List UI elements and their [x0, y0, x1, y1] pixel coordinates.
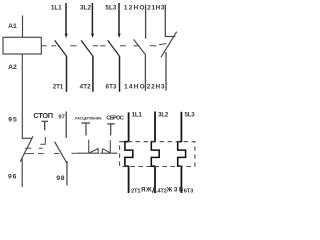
svg-text:A2: A2 [8, 64, 17, 71]
thermal pole 3 wire top [180, 112, 182, 142]
svg-text:1L1: 1L1 [51, 5, 62, 12]
svg-text:21Н3: 21Н3 [147, 4, 165, 11]
svg-text:6Т3: 6Т3 [106, 83, 118, 90]
coil KM1 [3, 37, 41, 54]
svg-text:4Т2: 4Т2 [157, 188, 167, 194]
wire 97 [65, 112, 67, 139]
svg-text:ЯЖД: ЯЖД [141, 186, 157, 193]
dashed link button to blade [25, 137, 45, 148]
trip actuator T1 [81, 123, 90, 136]
svg-text:1L1: 1L1 [132, 112, 143, 119]
svg-text:22Н3: 22Н3 [147, 83, 165, 90]
svg-text:2Т1: 2Т1 [53, 83, 64, 90]
svg-text:97: 97 [58, 115, 64, 121]
svg-text:98: 98 [56, 175, 64, 182]
blade pole 3 [108, 40, 120, 56]
blade aux NO [134, 39, 146, 55]
stop button actuator [42, 121, 49, 130]
svg-text:4Т2: 4Т2 [80, 83, 92, 90]
svg-text:96: 96 [8, 173, 17, 180]
svg-text:2Т1: 2Т1 [131, 188, 141, 194]
thermal pole 1 wire bottom [128, 166, 130, 193]
svg-text:3L2: 3L2 [80, 5, 91, 12]
arrow pole 1 [65, 34, 68, 38]
svg-text:95: 95 [8, 117, 17, 124]
seat 95-96 [22, 137, 32, 139]
svg-text:6Т3: 6Т3 [184, 188, 194, 194]
wire A1 top [22, 16, 24, 38]
svg-text:12НО: 12НО [124, 4, 145, 11]
arrow pole 2 [91, 34, 94, 38]
svg-text:A1: A1 [8, 23, 17, 30]
main contact pole 1 [65, 3, 68, 92]
svg-text:ЖЗВ: ЖЗВ [166, 186, 184, 193]
linkage dashed line bottom [25, 152, 77, 154]
linkage dashed line top [41, 44, 166, 46]
wire 98 [66, 161, 68, 186]
svg-text:РАСЦЕПЛЕНИЕ: РАСЦЕПЛЕНИЕ [75, 117, 102, 121]
main contact pole 2 [91, 3, 94, 92]
svg-text:14НО: 14НО [124, 83, 145, 90]
thermal pole 1 wire top [128, 112, 130, 142]
svg-text:СТОП: СТОП [33, 111, 53, 120]
heater element 2 [151, 142, 159, 167]
thermal pole 2 wire top [154, 112, 156, 143]
wire 96 [21, 158, 23, 187]
wire 22NZ [165, 52, 167, 91]
trip latch 1 [77, 140, 99, 154]
aux NO contact wires [144, 5, 146, 91]
blade pole 1 [55, 40, 67, 56]
main contact pole 3 [118, 3, 121, 92]
trip latch 2 [100, 140, 117, 153]
svg-text:СБРОС: СБРОС [106, 115, 124, 121]
arrow pole 3 [118, 34, 121, 38]
thermal pole 3 wire bottom [180, 166, 182, 193]
heater element 1 [125, 142, 133, 167]
thermal pole 2 wire bottom [154, 166, 156, 193]
blade pole 2 [81, 40, 93, 56]
svg-text:5L3: 5L3 [105, 5, 116, 12]
dashed box around heaters [120, 142, 195, 167]
svg-text:3L2: 3L2 [158, 112, 169, 119]
blade 95-96 [20, 136, 33, 162]
blade aux NC [161, 32, 177, 58]
aux NC contact wire and seat [165, 5, 175, 37]
blade 97-98 [55, 142, 68, 164]
svg-text:5L3: 5L3 [185, 112, 196, 119]
heater element 3 [178, 142, 186, 167]
wire A2 to 95 [21, 54, 23, 139]
reset actuator T2 [107, 124, 114, 136]
